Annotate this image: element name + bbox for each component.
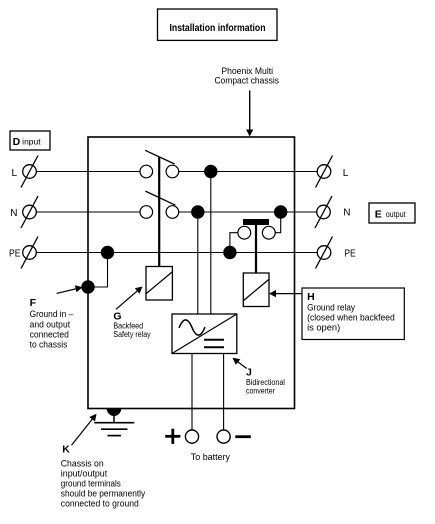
svg-text:connected: connected xyxy=(30,329,69,340)
ground stub xyxy=(113,409,115,423)
relay contact L: right terminal circle xyxy=(166,165,179,178)
wire converter to battery - xyxy=(223,354,225,431)
wire PE xyxy=(36,252,317,254)
junction dot on N wire (left) xyxy=(191,205,204,218)
junction dot on L wire xyxy=(204,165,217,178)
svg-text:PE: PE xyxy=(9,248,21,259)
junction dot on PE wire (left) xyxy=(101,246,114,259)
terminal N input (circle with slash) xyxy=(21,196,38,228)
svg-text:Safety relay: Safety relay xyxy=(113,329,151,339)
arrow J to converter xyxy=(233,358,247,369)
label J text block xyxy=(246,367,285,396)
svg-text:input/output: input/output xyxy=(61,468,108,478)
terminal L output (circle with slash) xyxy=(316,156,333,188)
terminal L input (circle with slash) xyxy=(21,156,38,188)
svg-text:F: F xyxy=(30,297,37,309)
label G text block xyxy=(113,311,151,339)
converter AC sine symbol xyxy=(179,320,205,335)
bidirectional converter U (box) xyxy=(172,314,237,354)
relay contact L: blade xyxy=(145,150,175,164)
junction dot on PE wire (right) xyxy=(223,246,236,259)
terminal PE input (circle with slash) xyxy=(21,237,38,269)
svg-text:to chassis: to chassis xyxy=(30,340,68,351)
svg-text:Installation information: Installation information xyxy=(170,23,266,34)
label "Phoenix Multi Compact chassis" xyxy=(214,66,279,87)
arrow from chassis label to chassis top xyxy=(246,91,253,137)
wire from L dot down to converter xyxy=(210,172,212,315)
wire from PE junction (right) up to left contact of ground relay xyxy=(230,233,238,253)
actuator link from contacts to backfeed relay G xyxy=(158,157,160,267)
actuator link from bar to ground relay H xyxy=(255,225,257,273)
battery terminal + circle xyxy=(185,430,198,443)
wire L left segment xyxy=(36,171,140,173)
svg-text:PE: PE xyxy=(344,248,356,259)
wire from N dot down to converter xyxy=(197,212,199,314)
junction dot on chassis left edge (ground in) xyxy=(81,280,94,293)
ground symbol (3 bars) xyxy=(94,423,134,436)
relay contact L: left terminal circle xyxy=(140,165,153,178)
svg-text:is open): is open) xyxy=(307,323,340,333)
wire N right segment xyxy=(179,211,317,213)
plus sign xyxy=(165,429,180,444)
svg-text:should be permanently: should be permanently xyxy=(61,488,146,498)
arrow K to ground dome xyxy=(72,414,97,446)
junction dot on N wire (right) xyxy=(274,205,287,218)
svg-text:converter: converter xyxy=(246,385,275,395)
backfeed safety relay G box xyxy=(146,267,172,301)
wire L right segment xyxy=(179,171,318,173)
svg-text:L: L xyxy=(343,168,349,179)
chassis ground connection dome on bottom edge xyxy=(107,409,121,416)
svg-text:K: K xyxy=(62,443,70,455)
ground relay H box xyxy=(243,273,269,307)
converter DC symbol (two bars) xyxy=(204,340,224,348)
svg-text:N: N xyxy=(343,208,350,219)
relay contact N: right terminal circle xyxy=(166,206,179,219)
svg-text:output: output xyxy=(386,210,407,219)
H callout box with text xyxy=(302,288,404,340)
E output label box xyxy=(369,203,415,223)
svg-text:connected to ground: connected to ground xyxy=(61,498,139,508)
svg-text:N: N xyxy=(10,208,17,219)
chassis enclosure box xyxy=(88,137,295,409)
arrow H to ground relay box xyxy=(269,290,302,297)
svg-text:Compact chassis: Compact chassis xyxy=(214,76,279,87)
svg-text:E: E xyxy=(375,208,382,220)
svg-text:Chassis on: Chassis on xyxy=(61,458,104,468)
label K text block xyxy=(61,443,146,508)
svg-text:(closed when backfeed: (closed when backfeed xyxy=(307,313,395,323)
relay contact N: left terminal circle xyxy=(140,206,153,219)
svg-text:Ground relay: Ground relay xyxy=(307,302,355,312)
terminal N output (circle with slash) xyxy=(315,196,332,228)
D input label box xyxy=(10,131,50,150)
terminal PE output (circle with slash) xyxy=(316,237,333,269)
ground relay contact bar (closed) xyxy=(243,219,269,225)
battery terminal - circle xyxy=(217,430,230,443)
svg-text:H: H xyxy=(307,291,315,303)
ground relay contact: left terminal circle xyxy=(238,226,251,239)
arrow G to backfeed relay box xyxy=(116,287,143,310)
svg-text:D: D xyxy=(13,136,21,148)
ground relay contact: right terminal circle xyxy=(262,226,275,239)
arrow F to chassis edge dot xyxy=(57,285,83,293)
label F text block xyxy=(30,297,74,351)
wire N left segment xyxy=(36,211,140,213)
relay contact N: blade xyxy=(145,191,175,205)
svg-text:L: L xyxy=(12,168,18,179)
svg-text:To battery: To battery xyxy=(191,452,231,462)
title box "Installation information" xyxy=(158,9,278,40)
minus sign xyxy=(235,435,251,438)
wire from PE junction to chassis edge dot xyxy=(88,253,108,288)
svg-text:ground terminals: ground terminals xyxy=(61,478,121,488)
wire converter to battery + xyxy=(191,354,193,431)
svg-text:input: input xyxy=(22,138,41,147)
wire from N dot (right) down to right contact of ground relay xyxy=(275,212,281,233)
